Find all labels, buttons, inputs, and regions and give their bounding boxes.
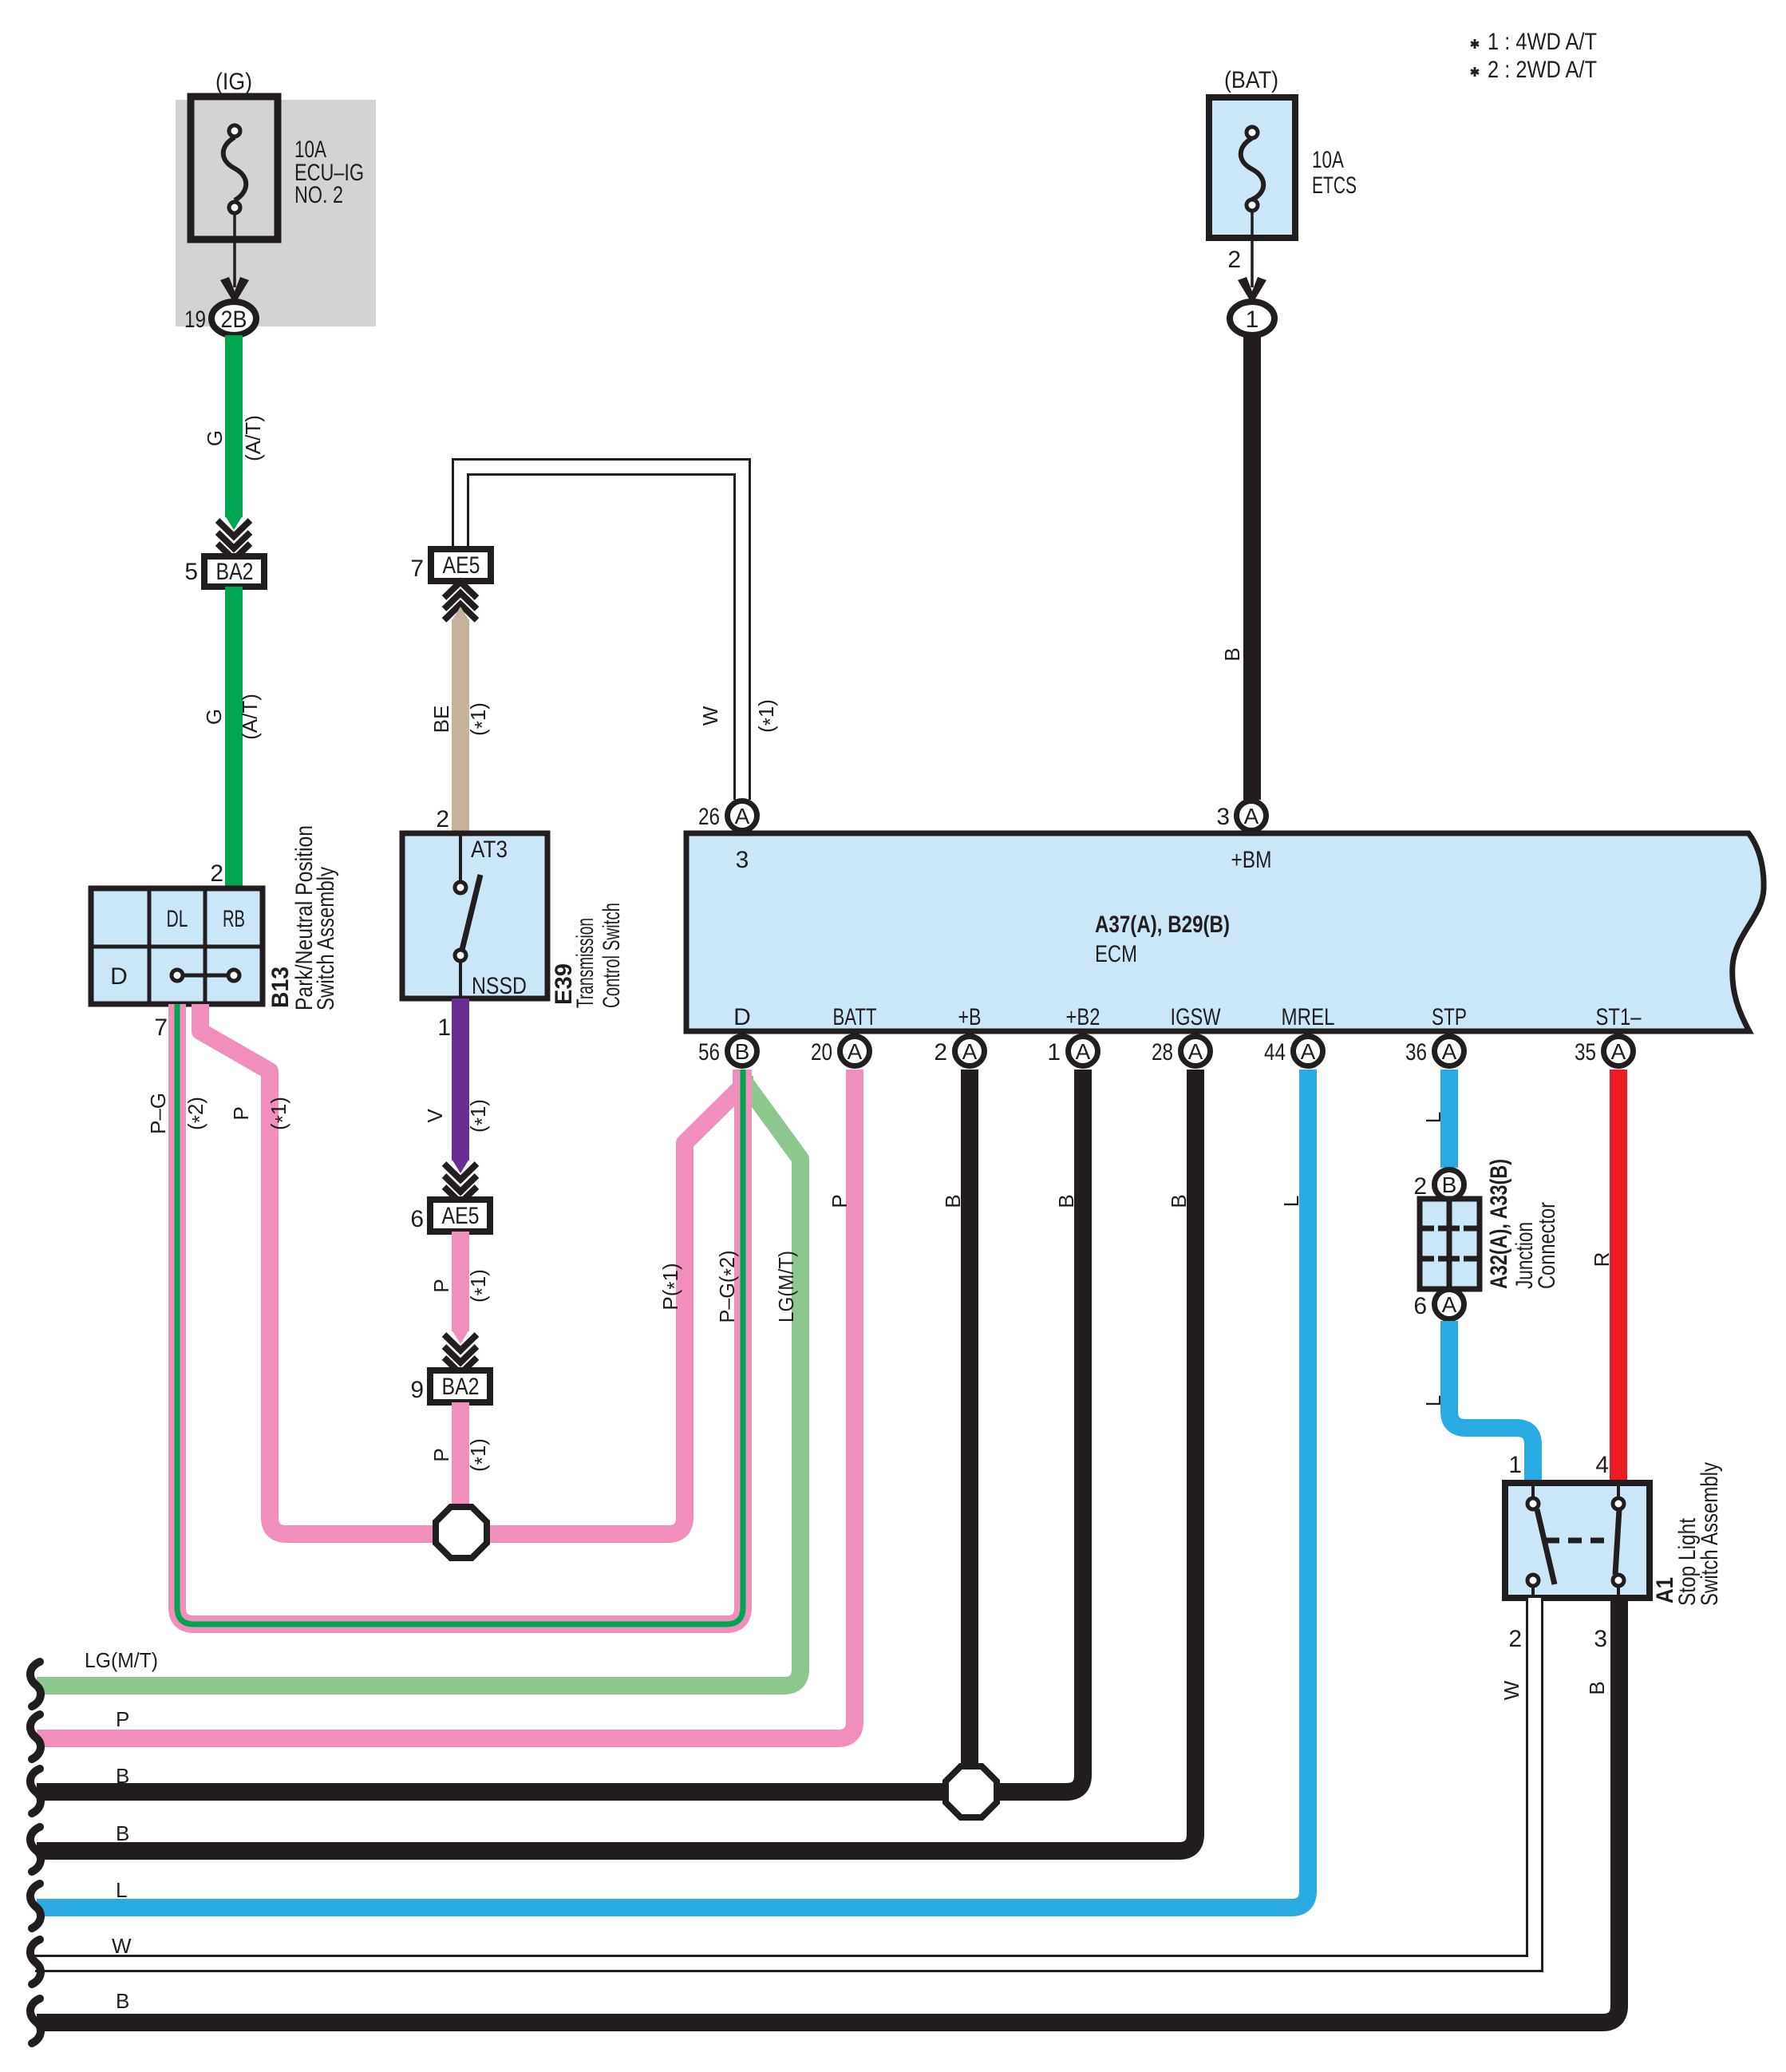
svg-text:2: 2 xyxy=(1227,247,1241,273)
svg-text:7: 7 xyxy=(154,1014,168,1041)
wire P (*1) B13 to junction xyxy=(200,1004,435,1534)
pin 56(B) ECM xyxy=(698,1037,757,1066)
svg-text:1: 1 xyxy=(437,1014,451,1041)
svg-text:1: 1 xyxy=(1508,1452,1522,1478)
wire B stop light to left edge xyxy=(37,1598,1619,2023)
svg-text:DL: DL xyxy=(167,906,188,932)
svg-text:44: 44 xyxy=(1264,1039,1286,1066)
svg-text:AE5: AE5 xyxy=(442,1203,480,1229)
svg-text:P: P xyxy=(429,1448,453,1461)
svg-text:Transmission: Transmission xyxy=(572,918,599,1008)
svg-text:W: W xyxy=(1500,1680,1523,1700)
wire B IGSW to left edge xyxy=(37,1070,1195,1851)
junction octagon B xyxy=(946,1766,997,1817)
wire G (A/T) lower xyxy=(202,587,262,888)
wire P (*1) BA2 to junction xyxy=(429,1402,494,1505)
svg-text:A: A xyxy=(1442,1292,1457,1317)
svg-text:IGSW: IGSW xyxy=(1171,1004,1222,1030)
svg-text:A: A xyxy=(1076,1039,1091,1064)
svg-text:A: A xyxy=(1244,804,1259,828)
svg-text:L: L xyxy=(1421,1395,1445,1406)
svg-text:(A/T): (A/T) xyxy=(241,415,265,461)
svg-text:BA2: BA2 xyxy=(216,559,254,585)
svg-text:ETCS: ETCS xyxy=(1312,172,1357,199)
svg-text:A37(A), B29(B): A37(A), B29(B) xyxy=(1095,911,1230,938)
svg-text:R: R xyxy=(1590,1252,1614,1267)
svg-text:2 : 2WD A/T: 2 : 2WD A/T xyxy=(1488,57,1597,83)
svg-text:2: 2 xyxy=(934,1039,947,1066)
left edge curl L xyxy=(30,1878,128,1928)
pin 1(A) ECM xyxy=(1047,1037,1097,1066)
svg-text:B13: B13 xyxy=(267,967,294,1008)
svg-text:3: 3 xyxy=(1216,804,1230,830)
svg-text:A: A xyxy=(1611,1039,1626,1064)
connector 2B pin 19 xyxy=(184,213,256,335)
svg-text:2: 2 xyxy=(436,806,449,832)
legend note *2 2WD xyxy=(1471,57,1597,83)
svg-text:L: L xyxy=(1279,1196,1303,1207)
svg-text:2: 2 xyxy=(1413,1173,1427,1200)
svg-text:(*1): (*1) xyxy=(267,1097,294,1130)
svg-text:1 : 4WD A/T: 1 : 4WD A/T xyxy=(1488,29,1597,55)
svg-text:2: 2 xyxy=(210,860,223,887)
svg-text:LG(M/T): LG(M/T) xyxy=(774,1251,798,1323)
svg-text:(*2): (*2) xyxy=(184,1097,211,1130)
svg-text:P: P xyxy=(828,1194,852,1208)
pin 44(A) ECM xyxy=(1264,1037,1323,1066)
wire R ST1- to stop light switch xyxy=(1590,1070,1618,1483)
svg-text:19: 19 xyxy=(184,306,206,333)
svg-text:(IG): (IG) xyxy=(215,69,252,95)
svg-text:10A: 10A xyxy=(1312,147,1344,173)
connector AE5 pin 6 xyxy=(410,1164,490,1232)
svg-text:BATT: BATT xyxy=(833,1004,877,1030)
svg-text:B: B xyxy=(1054,1194,1078,1208)
svg-text:G: G xyxy=(203,430,227,446)
svg-text:(*1): (*1) xyxy=(466,1269,494,1303)
svg-text:3: 3 xyxy=(736,847,749,873)
svg-text:BE: BE xyxy=(429,706,453,734)
switch A1 stop light xyxy=(1505,1462,1723,1606)
svg-text:A: A xyxy=(1301,1039,1316,1064)
wire V (*1) xyxy=(423,998,494,1173)
svg-text:A32(A), A33(B): A32(A), A33(B) xyxy=(1486,1159,1512,1289)
pin 26(A) ECM xyxy=(698,801,757,831)
svg-text:+BM: +BM xyxy=(1231,847,1272,873)
pin 35(A) ECM xyxy=(1575,1037,1634,1066)
svg-text:ST1–: ST1– xyxy=(1596,1004,1642,1030)
svg-text:Connector: Connector xyxy=(1534,1202,1560,1289)
svg-text:P–G(*2): P–G(*2) xyxy=(715,1251,743,1323)
svg-text:(BAT): (BAT) xyxy=(1224,67,1278,93)
fuse 10A ECU-IG NO. 2 xyxy=(191,97,364,239)
wire L junction connector to stop light switch xyxy=(1421,1321,1533,1483)
svg-text:A: A xyxy=(848,1039,863,1064)
wire P BATT to left edge xyxy=(37,1070,855,1738)
svg-text:B: B xyxy=(116,1821,129,1845)
wire P junction to ECM 56 xyxy=(489,1070,741,1534)
connector AE5 pin 7 xyxy=(410,549,491,620)
svg-text:A: A xyxy=(735,804,750,828)
svg-text:NSSD: NSSD xyxy=(472,973,527,999)
wire labels P(*1) P-G(*2) LG(M/T) below pin 56 xyxy=(658,1251,798,1323)
svg-text:1: 1 xyxy=(1246,306,1259,333)
svg-text:A: A xyxy=(962,1039,978,1064)
svg-text:2: 2 xyxy=(1508,1626,1522,1652)
svg-text:B: B xyxy=(735,1039,750,1064)
svg-text:W: W xyxy=(698,706,722,726)
legend note *1 4WD xyxy=(1471,29,1597,55)
svg-text:36: 36 xyxy=(1405,1039,1427,1066)
svg-text:(*1): (*1) xyxy=(466,1438,494,1472)
svg-text:AE5: AE5 xyxy=(443,552,480,579)
connector BA2 pin 5 xyxy=(184,520,264,587)
left edge curl B1 xyxy=(30,1764,129,1813)
svg-text:Switch Assembly: Switch Assembly xyxy=(1697,1462,1723,1606)
svg-text:(*1): (*1) xyxy=(466,702,494,736)
svg-text:RB: RB xyxy=(223,906,245,932)
wire B +B to junction octagon xyxy=(941,1070,970,1766)
svg-text:NO. 2: NO. 2 xyxy=(294,182,343,208)
svg-text:(*1): (*1) xyxy=(754,699,782,733)
svg-text:26: 26 xyxy=(698,804,720,830)
svg-text:3: 3 xyxy=(1594,1626,1607,1652)
svg-text:MREL: MREL xyxy=(1282,1004,1335,1030)
fuse 10A ETCS (BAT) xyxy=(1209,67,1357,238)
svg-text:7: 7 xyxy=(410,556,424,582)
svg-text:B: B xyxy=(1442,1172,1457,1197)
svg-text:B: B xyxy=(116,1764,129,1788)
svg-text:L: L xyxy=(1421,1112,1445,1123)
svg-text:35: 35 xyxy=(1575,1039,1596,1066)
svg-text:G: G xyxy=(202,709,226,725)
wire B +B2 to junction octagon xyxy=(998,1070,1083,1792)
svg-text:B: B xyxy=(1220,647,1244,661)
svg-text:P: P xyxy=(229,1106,253,1120)
left edge curl W xyxy=(30,1934,132,1984)
pin 28(A) ECM xyxy=(1152,1037,1211,1066)
junction octagon P xyxy=(436,1507,487,1558)
svg-text:ECM: ECM xyxy=(1095,941,1137,967)
connector 1 pin 2 xyxy=(1227,211,1274,335)
svg-text:6: 6 xyxy=(1413,1293,1427,1319)
switch E39 transmission control xyxy=(402,806,625,1041)
pin 2(A) ECM xyxy=(934,1037,984,1066)
svg-text:D: D xyxy=(733,1004,751,1030)
svg-text:A: A xyxy=(1442,1039,1457,1064)
wire L MREL to left edge xyxy=(37,1070,1308,1908)
left edge curl B2 xyxy=(30,1821,129,1872)
left edge curl LG(M/T) xyxy=(30,1648,158,1706)
svg-text:AT3: AT3 xyxy=(471,836,508,863)
svg-text:B: B xyxy=(116,1989,129,2013)
ECM box A37(A) B29(B) xyxy=(686,833,1764,1031)
wire B to +BM xyxy=(1220,335,1252,800)
svg-text:B: B xyxy=(941,1194,965,1208)
wire W stop light to left edge xyxy=(35,1598,1535,1963)
svg-text:5: 5 xyxy=(184,559,198,585)
svg-text:V: V xyxy=(423,1109,447,1123)
svg-text:BA2: BA2 xyxy=(442,1374,480,1400)
svg-text:56: 56 xyxy=(698,1039,720,1066)
wire W (*1) AE5 to ECM 26 xyxy=(460,467,782,800)
junction connector A32(A) A33(B) xyxy=(1413,1159,1560,1319)
svg-text:Control Switch: Control Switch xyxy=(599,903,625,1008)
pin 36(A) ECM xyxy=(1405,1037,1464,1066)
svg-text:LG(M/T): LG(M/T) xyxy=(85,1648,158,1672)
svg-text:A: A xyxy=(1188,1039,1203,1064)
svg-text:B: B xyxy=(1167,1194,1191,1208)
svg-text:STP: STP xyxy=(1432,1004,1467,1030)
svg-text:+B2: +B2 xyxy=(1066,1004,1100,1030)
wire P-G (*2) striped B13 to ECM 56 xyxy=(146,1004,743,1624)
wire LG(M/T) ECM 56 to left edge xyxy=(37,1076,800,1686)
svg-text:9: 9 xyxy=(410,1377,424,1403)
svg-text:(A/T): (A/T) xyxy=(238,694,262,740)
svg-text:28: 28 xyxy=(1152,1039,1173,1066)
svg-text:P(*1): P(*1) xyxy=(658,1263,686,1310)
svg-text:Switch Assembly: Switch Assembly xyxy=(313,867,339,1010)
svg-text:(*1): (*1) xyxy=(466,1099,494,1133)
svg-text:P–G: P–G xyxy=(146,1093,170,1134)
svg-text:+B: +B xyxy=(958,1004,982,1030)
fuse block gray area (IG) xyxy=(176,69,376,326)
pin 20(A) ECM xyxy=(811,1037,870,1066)
switch B13 park/neutral position xyxy=(91,825,339,1041)
wire G (A/T) upper xyxy=(203,335,265,530)
svg-text:D: D xyxy=(110,963,128,990)
wire L STP to junction connector xyxy=(1421,1070,1449,1168)
svg-text:20: 20 xyxy=(811,1039,832,1066)
wire B junction to left edge xyxy=(37,1783,945,1801)
svg-text:W: W xyxy=(112,1934,132,1958)
svg-text:1: 1 xyxy=(1047,1039,1061,1066)
wire BE (*1) xyxy=(429,607,494,833)
svg-text:6: 6 xyxy=(410,1206,424,1232)
svg-text:2B: 2B xyxy=(221,306,247,333)
svg-text:P: P xyxy=(116,1707,129,1731)
left edge curl B3 xyxy=(30,1989,129,2043)
svg-text:B: B xyxy=(1585,1681,1609,1694)
connector BA2 pin 9 xyxy=(410,1335,490,1403)
svg-text:P: P xyxy=(429,1279,453,1292)
svg-text:L: L xyxy=(116,1878,127,1902)
svg-text:4: 4 xyxy=(1595,1452,1609,1478)
left edge curl P xyxy=(30,1707,129,1759)
pin 3(A) ECM xyxy=(1216,801,1266,831)
wire P (*1) AE5 to BA2 xyxy=(429,1232,494,1344)
